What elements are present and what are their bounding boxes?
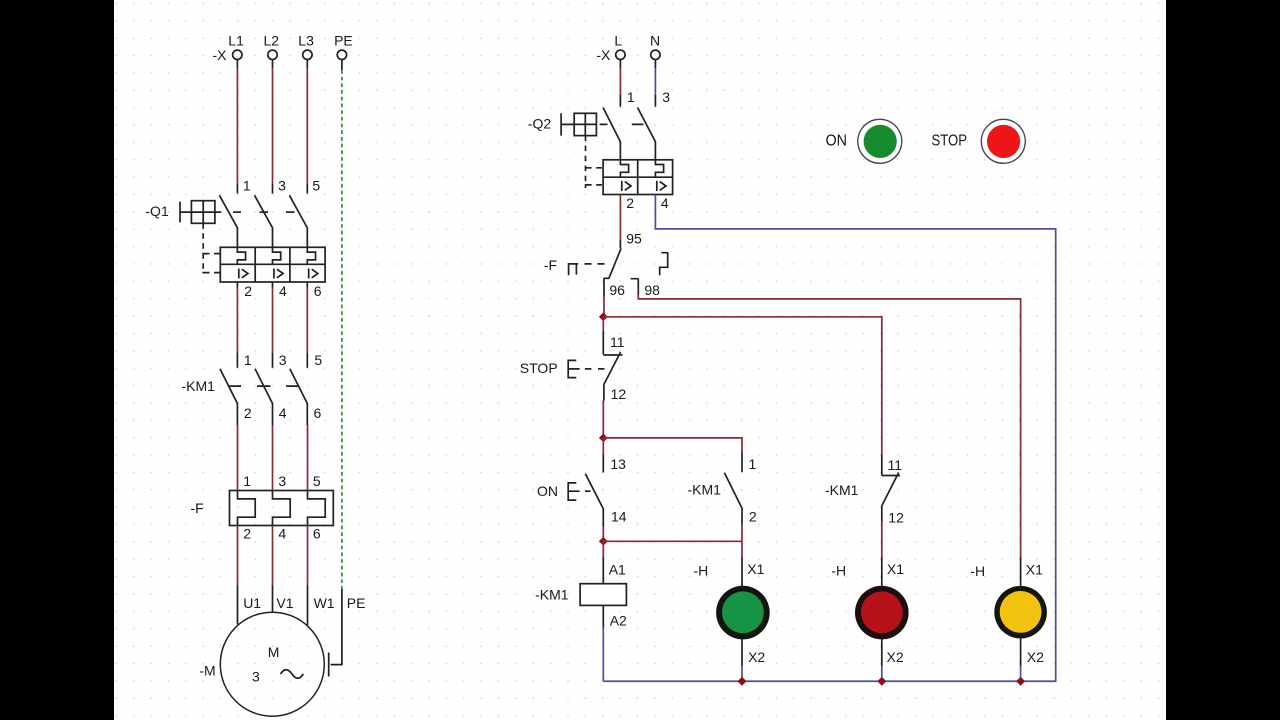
terminal -X N (control) [651,50,660,59]
svg-text:1: 1 [244,352,252,368]
F thermal symbol [569,264,579,275]
svg-text:STOP: STOP [520,360,558,376]
wire KM1 NC 12 to red lamp (red) [881,522,883,557]
svg-text:L3: L3 [298,33,314,49]
Q2 thermal hook pole 1 [620,160,628,177]
left letterbox bar [0,0,114,720]
PE wire (green dashed) [329,60,342,677]
node junction 96 [599,312,608,321]
wire KM1 to F pole 1 [237,425,239,491]
terminal -X L (control) [616,50,625,59]
svg-text:12: 12 [888,509,904,525]
stop button STOP (NC) [568,331,622,401]
wire Q1 to KM1 pole 1 [236,282,238,368]
svg-text:3: 3 [252,669,260,685]
wire junction to ON (red) [602,438,604,455]
svg-text:1: 1 [243,473,251,489]
svg-text:-X: -X [213,47,228,63]
Q2 magnetic I> pole 2 [657,181,666,191]
svg-text:X1: X1 [887,561,904,577]
svg-text:1: 1 [243,178,251,194]
svg-text:A2: A2 [610,613,627,629]
overload contact F 95-96 [569,248,622,296]
svg-text:PE: PE [347,595,366,611]
wire green lamp X2 to N rail [741,639,743,681]
KM1 aux NC contact 11-12 [882,454,900,522]
svg-text:M: M [268,644,280,660]
node X2 green on N rail [738,677,747,686]
breaker Q2 [561,108,673,195]
wire red lamp X2 to N rail [881,639,883,681]
svg-text:-M: -M [199,663,215,679]
wire Q2 to F95 (red) [619,195,621,249]
wire KM1 to F pole 3 [307,425,309,491]
svg-text:4: 4 [279,283,287,299]
svg-text:2: 2 [244,405,252,421]
wire junction to KM1 NC branch (red) [603,317,882,454]
POWER-CIRCUIT [145,33,365,717]
svg-text:13: 13 [610,456,626,472]
svg-text:-KM1: -KM1 [825,482,859,498]
terminal -X L1 [233,50,242,59]
wire F to motor V1 [272,526,274,613]
svg-text:98: 98 [644,282,660,298]
F heater pole 3 [308,491,326,526]
Q1 thermal hook pole 2 [273,247,281,264]
wire coil A2 to N rail (blue) [602,628,604,682]
svg-text:2: 2 [244,283,252,299]
PE motor frame connection bar [328,653,330,677]
svg-text:3: 3 [662,89,670,105]
Q1 pole 3 blade [289,195,307,247]
svg-text:-KM1: -KM1 [535,586,569,602]
terminal -X PE [337,50,346,59]
node junction 13 [599,434,608,443]
svg-text:X1: X1 [747,561,764,577]
terminal -X L3 [303,50,312,59]
wire L1 (red phase) [236,60,238,194]
lamp H green [716,586,770,640]
wire F to motor W1 [307,526,309,626]
lamp H red [855,586,909,640]
wire 14 rail to KM1 aux (red) [603,540,742,542]
svg-text:-KM1: -KM1 [688,482,722,498]
wire junction to KM1 aux branch (red) [603,438,742,452]
motor M [220,612,324,716]
svg-text:-H: -H [970,563,985,579]
Q2 thermal hook pole 2 [655,160,663,177]
Q1 trip linkage dashed [202,223,204,273]
terminal -X L2 [268,50,277,59]
Q1 magnetic I> pole 2 [274,269,283,279]
svg-text:W1: W1 [314,595,335,611]
svg-text:2: 2 [626,195,634,211]
svg-text:11: 11 [610,334,625,350]
svg-text:-KM1: -KM1 [182,378,216,394]
Q1 magnetic I> pole 3 [309,269,318,279]
svg-text:A1: A1 [609,561,626,577]
wire Q1 to KM1 pole 2 [272,282,274,368]
svg-text:-F: -F [544,257,557,273]
breaker Q1 [180,195,325,282]
svg-text:12: 12 [611,386,627,402]
wire yellow lamp X1 (black above lamp) [1020,557,1022,586]
Q1 thermal hook pole 1 [237,247,245,264]
svg-text:5: 5 [312,178,320,194]
svg-text:4: 4 [279,405,287,421]
node X2 red on N rail [877,677,886,686]
svg-text:5: 5 [313,473,321,489]
wire 98 to yellow lamp (red) [638,295,1020,558]
svg-text:6: 6 [314,283,322,299]
indicator ON button [858,119,902,163]
svg-text:-H: -H [694,563,709,579]
wire STOP to junction 13 (red) [602,401,604,438]
svg-text:95: 95 [626,230,642,246]
F heater pole 2 [273,491,291,526]
svg-text:2: 2 [243,525,251,541]
wire Q1 to KM1 pole 3 [306,282,308,368]
svg-text:ON: ON [537,483,558,499]
wire yellow lamp X2 to N rail [1020,638,1022,681]
svg-text:X2: X2 [748,649,765,665]
svg-text:L2: L2 [264,33,280,49]
svg-text:ON: ON [826,133,848,150]
svg-text:3: 3 [278,473,286,489]
indicator STOP button [981,119,1025,163]
lamp H yellow [994,586,1047,639]
svg-text:V1: V1 [276,595,293,611]
svg-text:11: 11 [888,457,903,473]
wire green lamp branch (red) [741,541,743,557]
Q2 trip linkage dashed [585,136,587,188]
wire F to motor U1 [237,526,239,625]
right letterbox bar [1166,0,1280,720]
node X2 yellow on N rail [1016,677,1025,686]
svg-text:1: 1 [749,456,757,472]
overload NO contact 97-98 [631,253,669,295]
node junction 14 [599,537,608,546]
CONTROL-CIRCUIT [520,33,1056,686]
Q1 pole 1 blade [219,195,237,247]
svg-text:X1: X1 [1026,562,1043,578]
svg-text:PE: PE [334,33,353,49]
STOP actuator E symbol [568,360,579,377]
INDICATORS [826,119,1026,163]
98 terminal hook [631,279,639,295]
Q1 overload box [220,247,325,282]
Q1 pole 2 blade [255,195,273,247]
Q2 overload box [603,160,673,195]
KM1 aux NO contact 1-2 [725,452,743,525]
svg-text:L: L [614,33,622,49]
motor tilde [281,670,304,679]
svg-text:N: N [650,33,660,49]
svg-text:6: 6 [313,525,321,541]
svg-text:STOP: STOP [932,132,968,149]
svg-text:3: 3 [279,352,287,368]
wire L3 (red phase) [306,60,308,194]
wire ON to junction 14 (red) [602,527,604,542]
svg-text:-Q1: -Q1 [145,203,169,219]
svg-text:14: 14 [611,508,627,524]
Q1 magnetic I> pole 1 [239,269,248,279]
svg-text:6: 6 [314,405,322,421]
Q2 pole 2 blade [638,108,656,160]
wire L2 (red phase) [272,60,274,194]
svg-text:X2: X2 [1027,649,1044,665]
svg-text:-X: -X [596,47,611,63]
svg-text:1: 1 [627,89,635,105]
N rail (blue) [603,195,1055,682]
svg-text:3: 3 [278,178,286,194]
svg-text:2: 2 [749,509,757,525]
wire N (control, blue) [654,60,656,107]
wire junction to STOP (red) [602,317,604,331]
svg-text:-H: -H [831,563,846,579]
contactor KM1 main contacts [220,369,307,425]
overload relay F (power) [230,491,334,526]
wire L (control, red) [619,60,621,107]
coil KM1 [580,557,626,628]
svg-text:5: 5 [314,352,322,368]
wire coil branch (red) [602,541,604,557]
ON actuator E symbol [568,483,579,500]
Q2 pole 1 blade [603,108,620,160]
svg-text:X2: X2 [887,649,904,665]
svg-text:4: 4 [278,525,286,541]
F heater pole 1 [238,491,256,526]
svg-text:4: 4 [661,195,669,211]
on button ON (NO) [568,455,603,527]
Q1 thermal hook pole 3 [307,247,315,264]
svg-text:U1: U1 [243,595,261,611]
Q2 magnetic I> pole 1 [622,181,631,191]
svg-text:-Q2: -Q2 [528,116,552,132]
svg-text:-F: -F [191,500,204,516]
svg-text:L1: L1 [228,33,244,49]
wire KM1 to F pole 2 [272,425,274,491]
wire 96 to junction (red) [603,297,605,317]
svg-text:96: 96 [609,282,625,298]
wire KM1 aux 2 to 14 rail (red) [741,525,743,542]
